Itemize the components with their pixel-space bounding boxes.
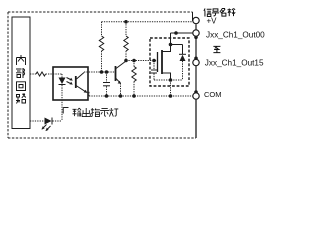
svg-text:+V: +V [207,17,218,26]
svg-text:COM: COM [204,90,222,99]
svg-text:Jxx_Ch1_Out15: Jxx_Ch1_Out15 [205,58,264,67]
svg-text:Jxx_Ch1_Out00: Jxx_Ch1_Out00 [206,30,265,39]
